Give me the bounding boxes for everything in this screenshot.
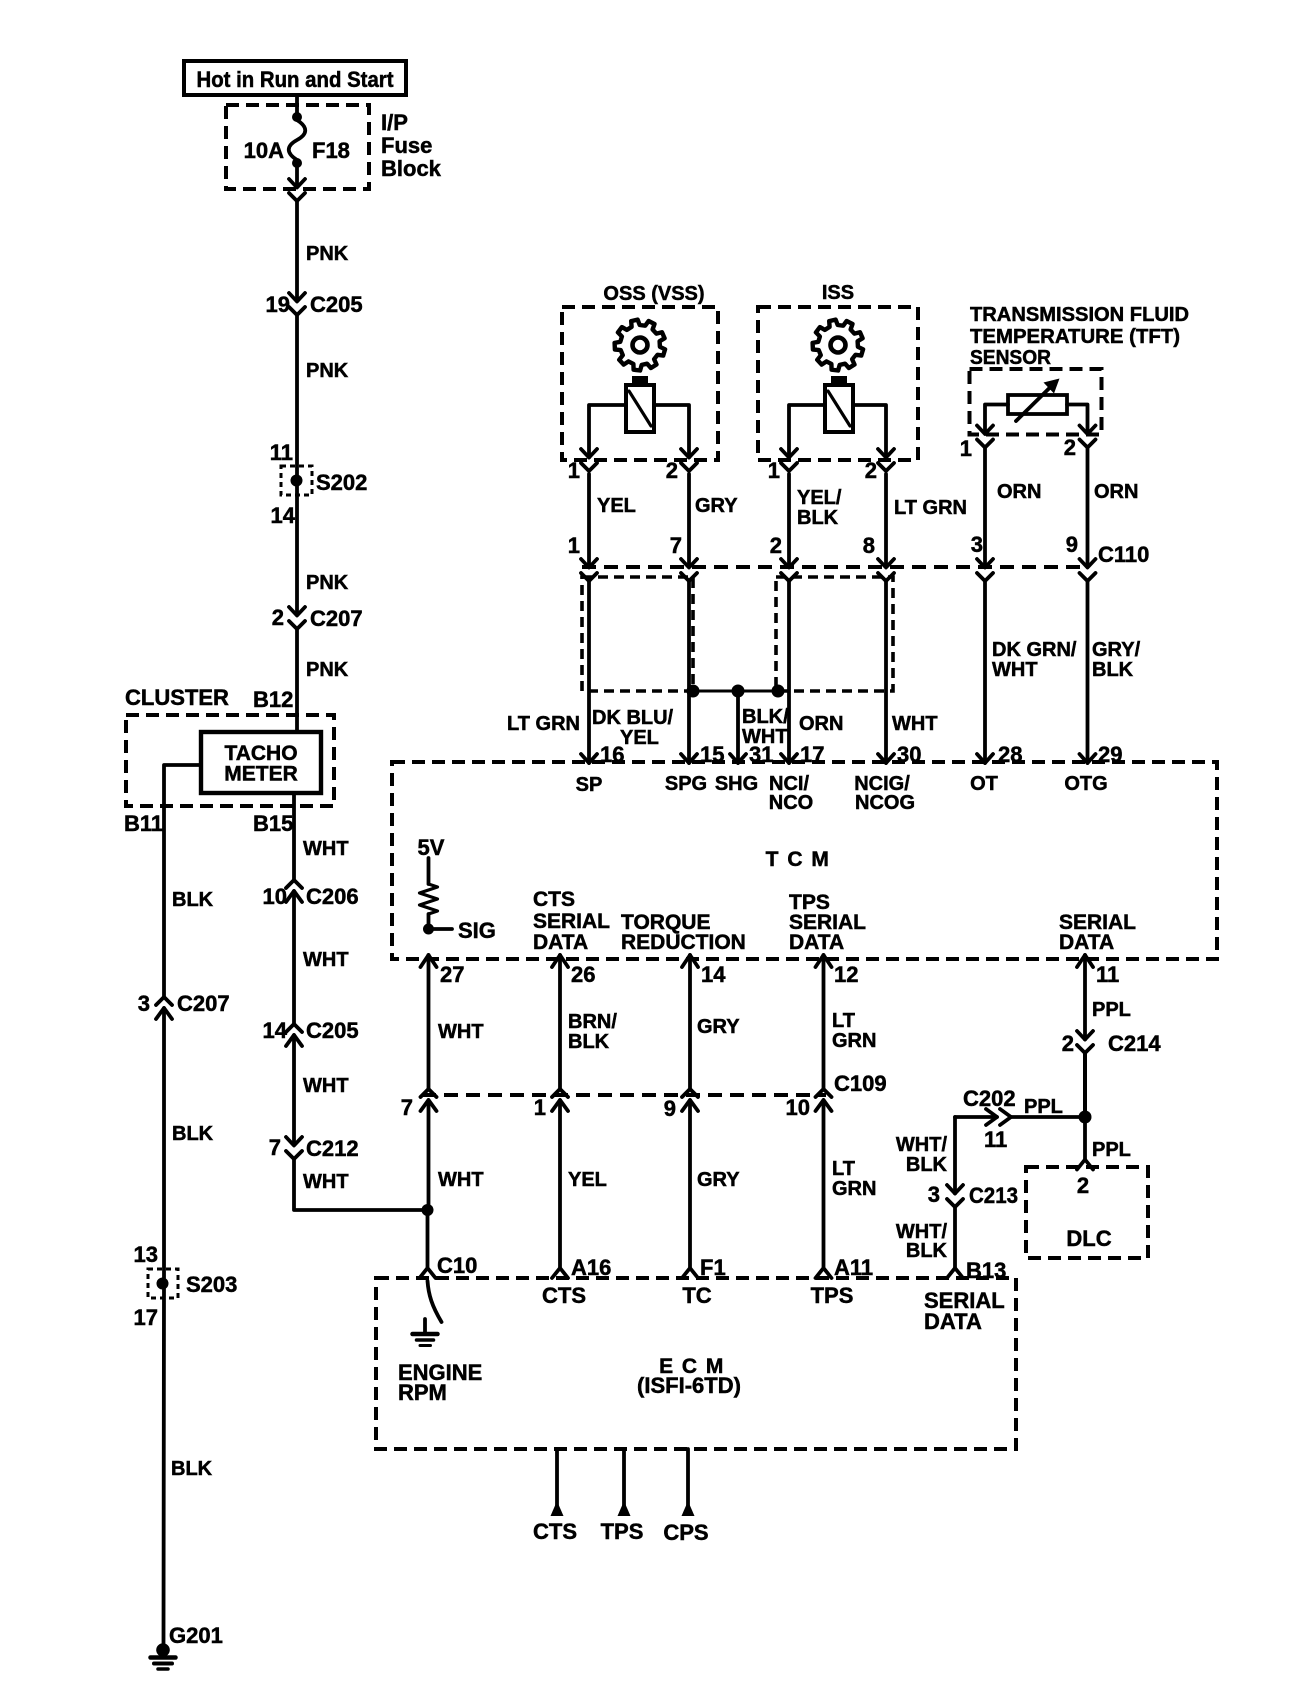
svg-text:GRY: GRY (695, 495, 738, 517)
TCM pin 29 arrow (1080, 754, 1096, 763)
svg-text:DATA: DATA (1059, 931, 1114, 954)
svg-text:TRANSMISSION FLUID: TRANSMISSION FLUID (970, 304, 1189, 326)
ECM pin C10 chevron (420, 1268, 436, 1278)
power feed banner: Hot in Run and Start (184, 61, 406, 95)
shield drain bus (693, 690, 778, 693)
svg-text:2: 2 (666, 458, 678, 483)
DLC dashed box (1026, 1167, 1148, 1258)
svg-text:Hot in Run and Start: Hot in Run and Start (197, 67, 395, 92)
ISS dashed box (758, 307, 918, 460)
svg-text:Fuse: Fuse (381, 133, 432, 158)
svg-text:DATA: DATA (924, 1309, 982, 1334)
connector C214 pin 2 (1077, 1031, 1093, 1040)
svg-text:SP: SP (576, 774, 603, 796)
svg-text:ISS: ISS (822, 282, 854, 304)
wire WHT C206 to C205 (292, 891, 296, 1024)
svg-text:C205: C205 (310, 292, 363, 317)
svg-text:OSS (VSS): OSS (VSS) (603, 283, 704, 305)
TCM pin 31 arrow (730, 754, 746, 763)
svg-text:YEL: YEL (620, 727, 659, 749)
wire TPS input (622, 1449, 626, 1508)
svg-text:10A: 10A (244, 138, 284, 163)
CPS input arrowhead (682, 1501, 695, 1516)
svg-text:WHT: WHT (438, 1021, 484, 1043)
svg-text:14: 14 (263, 1018, 288, 1043)
svg-text:ORN: ORN (799, 713, 843, 735)
svg-text:DLC: DLC (1066, 1226, 1111, 1251)
svg-text:BLK: BLK (1092, 659, 1134, 681)
wire ORN TFT-1 to C110 (983, 448, 987, 565)
svg-text:BLK: BLK (171, 1458, 213, 1480)
svg-text:(ISFI-6TD): (ISFI-6TD) (637, 1373, 741, 1398)
svg-text:OT: OT (970, 773, 998, 795)
svg-text:17: 17 (134, 1305, 158, 1330)
fuse F18 element (289, 120, 306, 160)
wire PNK C205 to S202 (295, 315, 299, 480)
shield junction dot left (687, 685, 700, 698)
TPS input arrowhead (618, 1501, 631, 1516)
svg-text:29: 29 (1098, 742, 1122, 767)
OSS pin 1 connector (581, 449, 597, 458)
svg-text:GRN: GRN (832, 1178, 876, 1200)
svg-text:BLK: BLK (172, 1123, 214, 1145)
svg-text:C207: C207 (177, 991, 230, 1016)
svg-text:2: 2 (1064, 435, 1076, 460)
wire GRY/BLK C110-9 to TCM pin 29 (1086, 581, 1090, 763)
wire LT GRN C110-1 to TCM pin 16 (587, 581, 591, 763)
ISS pickup sensor (831, 376, 847, 385)
wire PPL TCM-11 to C214 (1083, 955, 1087, 1040)
wire DK BLU/YEL C110-7 to TCM pin 15 (687, 581, 691, 763)
svg-text:NCOG: NCOG (855, 792, 915, 814)
svg-text:PNK: PNK (306, 243, 349, 265)
5V feed lead (427, 858, 431, 884)
OSS pickup sensor (632, 376, 648, 385)
svg-text:PNK: PNK (306, 360, 349, 382)
svg-text:28: 28 (998, 742, 1022, 767)
svg-text:C207: C207 (310, 606, 363, 631)
svg-text:OTG: OTG (1064, 773, 1107, 795)
connector C207 pin 3 (156, 997, 172, 1005)
TFT internal wires (985, 405, 1008, 433)
wire PPL C202 to junction (1011, 1115, 1085, 1119)
TCM pin 28 arrow (977, 754, 993, 763)
CTS input arrowhead (551, 1501, 564, 1516)
C109 pin 7 connector (421, 1089, 437, 1097)
wire WHT/BLK corner down to C213 (953, 1117, 957, 1194)
svg-text:BRN/: BRN/ (568, 1011, 617, 1033)
shield box around ISS pair (776, 577, 893, 691)
wire WHT TCM-27 to C109 (427, 955, 431, 1089)
svg-text:WHT/: WHT/ (896, 1134, 948, 1156)
svg-text:BLK: BLK (906, 1240, 948, 1262)
OSS internal wires (589, 405, 626, 458)
junction dot WHT (422, 1204, 434, 1216)
svg-text:LT: LT (832, 1158, 855, 1180)
svg-text:C202: C202 (963, 1086, 1016, 1111)
junction dot PPL (1079, 1111, 1092, 1124)
wire PNK C207 to cluster (295, 629, 299, 732)
wire CPS input (686, 1449, 690, 1508)
wire YEL C109 to ECM A16 (558, 1100, 562, 1267)
svg-text:WHT: WHT (303, 838, 349, 860)
svg-text:SENSOR: SENSOR (970, 347, 1052, 369)
ISS pin 1 connector (781, 449, 797, 458)
svg-text:11: 11 (1096, 962, 1119, 987)
ground G201 (156, 1643, 170, 1657)
svg-text:7: 7 (670, 533, 682, 558)
svg-text:3: 3 (928, 1182, 940, 1207)
C110 pin 1 connector (581, 559, 597, 568)
svg-text:C205: C205 (306, 1018, 359, 1043)
svg-text:REDUCTION: REDUCTION (621, 931, 746, 954)
C109 pin 9 connector (682, 1089, 698, 1097)
connector C205 pin 19 (289, 293, 305, 302)
svg-text:G201: G201 (169, 1623, 223, 1648)
connector C207 pin 2 (289, 607, 305, 616)
wire WHT C110-8 to TCM pin 30 (884, 581, 888, 763)
engine rpm switch (428, 1281, 442, 1322)
svg-text:DK GRN/: DK GRN/ (992, 639, 1077, 661)
svg-text:B15: B15 (253, 811, 293, 836)
I/P fuse block dashed box (226, 105, 369, 189)
svg-text:BLK: BLK (906, 1154, 948, 1176)
svg-text:7: 7 (401, 1095, 413, 1120)
svg-text:14: 14 (701, 962, 726, 987)
svg-text:I/P: I/P (381, 110, 408, 135)
TCM pin 27 arrow (421, 955, 437, 967)
svg-text:WHT: WHT (303, 1171, 349, 1193)
ISS pin 2 connector (878, 449, 894, 458)
connector C213 pin 3 (947, 1185, 963, 1194)
svg-text:WHT: WHT (438, 1169, 484, 1191)
OSS gear icon (615, 320, 666, 371)
svg-text:27: 27 (440, 962, 464, 987)
svg-text:BLK: BLK (797, 507, 839, 529)
OSS pin 2 connector (681, 449, 697, 458)
svg-text:19: 19 (266, 292, 290, 317)
TCM pin 26 arrow (552, 955, 568, 967)
C109 pin 1 connector (552, 1089, 568, 1097)
C110 pin 8 connector (878, 559, 894, 568)
wire LT GRN TCM-12 to C109 (822, 955, 826, 1089)
connector C202 pin 11 (986, 1109, 997, 1125)
wire ORN C110-2 to TCM pin 17 (787, 581, 791, 763)
wire GRY OSS-2 to C110 (687, 474, 691, 565)
wire GRY C109 to ECM F1 (688, 1100, 692, 1267)
svg-text:2: 2 (272, 605, 284, 630)
junction dot top of fuse F18 (292, 112, 302, 122)
SIG node dot (423, 924, 434, 935)
svg-text:DK BLU/: DK BLU/ (592, 707, 674, 729)
shield junction dot right (772, 685, 785, 698)
svg-text:3: 3 (971, 532, 983, 557)
svg-text:C110: C110 (1098, 542, 1149, 567)
splice S203 dot (157, 1278, 169, 1290)
wire LT GRN ISS-2 to C110 (884, 474, 888, 565)
svg-text:LT GRN: LT GRN (507, 713, 580, 735)
svg-text:SERIAL: SERIAL (533, 910, 610, 933)
svg-text:8: 8 (863, 533, 875, 558)
connector C206 pin 10 (286, 880, 302, 888)
svg-text:CLUSTER: CLUSTER (125, 685, 229, 710)
svg-text:GRN: GRN (832, 1030, 876, 1052)
svg-text:CTS: CTS (542, 1283, 586, 1308)
svg-text:30: 30 (897, 742, 921, 767)
svg-text:NCO: NCO (769, 792, 813, 814)
TCM pin 16 arrow (581, 754, 597, 763)
svg-text:S202: S202 (316, 470, 367, 495)
C110 pin 3 connector (977, 559, 993, 568)
ECM pin B13 chevron (947, 1268, 963, 1278)
TCM pin 12 arrow (816, 955, 832, 967)
engine rpm ground (423, 1319, 427, 1332)
svg-text:BLK/: BLK/ (742, 706, 789, 728)
shield box around OSS pair (582, 577, 693, 691)
pull-up resistor (420, 884, 438, 914)
wire WHT C109 to junction (427, 1100, 431, 1210)
svg-text:GRY: GRY (697, 1169, 740, 1191)
ECM dashed box (376, 1278, 1016, 1449)
svg-text:A11: A11 (834, 1255, 873, 1280)
svg-text:SHG: SHG (715, 773, 758, 795)
C110 pin 9 connector (1080, 559, 1096, 568)
svg-text:7: 7 (269, 1135, 281, 1160)
svg-text:CPS: CPS (663, 1520, 708, 1545)
C110 pin 7 connector (681, 559, 697, 568)
TCM pin 15 arrow (681, 754, 697, 763)
TFT pin 2 connector (1080, 426, 1096, 435)
connector C109 dashed line (422, 1093, 826, 1097)
TCM pin 30 arrow (878, 754, 894, 763)
wire PNK S202 to C207 (295, 480, 299, 615)
svg-text:2: 2 (1077, 1173, 1089, 1198)
ISS gear icon (813, 320, 864, 371)
svg-text:BLK: BLK (172, 889, 214, 911)
splice S203 dashed box (148, 1269, 178, 1298)
svg-text:3: 3 (138, 991, 150, 1016)
svg-text:10: 10 (263, 884, 287, 909)
wire CTS input (555, 1449, 559, 1508)
svg-text:PPL: PPL (1092, 999, 1131, 1021)
svg-text:WHT: WHT (303, 1075, 349, 1097)
wire WHT/BLK ECM branch horizontal (955, 1115, 997, 1119)
svg-text:T C M: T C M (766, 848, 831, 871)
TCM pin 14 arrow (682, 955, 698, 967)
resistor lead to SIG node (427, 914, 431, 929)
svg-text:10: 10 (786, 1095, 810, 1120)
splice S202 dashed box (281, 466, 312, 495)
svg-text:17: 17 (800, 742, 824, 767)
svg-text:C213: C213 (969, 1183, 1018, 1208)
wire B11 from tachometer (164, 765, 201, 997)
svg-text:YEL/: YEL/ (797, 487, 842, 509)
SIG tick (434, 927, 452, 931)
svg-text:S203: S203 (186, 1272, 237, 1297)
svg-text:C214: C214 (1108, 1031, 1161, 1056)
cluster dashed box (126, 715, 334, 806)
ISS internal wires (789, 405, 825, 458)
svg-text:TPS: TPS (601, 1519, 644, 1544)
svg-text:YEL: YEL (568, 1169, 607, 1191)
ECM pin F1 chevron (682, 1268, 698, 1278)
svg-text:1: 1 (960, 436, 972, 461)
svg-text:14: 14 (271, 503, 296, 528)
DLC pin 2 chevron (1077, 1160, 1093, 1170)
wire WHT tachometer B15 to C206 (292, 793, 296, 880)
connector at fuse block bottom edge (289, 179, 305, 188)
svg-text:B11: B11 (124, 811, 163, 836)
svg-text:2: 2 (865, 458, 877, 483)
svg-text:WHT: WHT (892, 713, 938, 735)
svg-text:F1: F1 (700, 1255, 726, 1280)
wire WHT C205 to C212 (292, 1035, 296, 1145)
svg-text:CTS: CTS (533, 1519, 577, 1544)
wire LT GRN C109 to ECM A11 (822, 1100, 826, 1267)
svg-text:5V: 5V (418, 835, 445, 860)
svg-text:DATA: DATA (533, 931, 588, 954)
svg-text:26: 26 (571, 962, 595, 987)
svg-text:BLK: BLK (568, 1031, 610, 1053)
svg-text:TPS: TPS (811, 1283, 854, 1308)
svg-text:LT GRN: LT GRN (894, 497, 967, 519)
svg-text:15: 15 (700, 742, 724, 767)
TFT dashed box (970, 369, 1102, 435)
wire GRY TCM-14 to C109 (688, 955, 692, 1089)
wire PNK fuse to C205 (295, 201, 299, 301)
svg-text:1: 1 (568, 533, 580, 558)
connector C110 dashed line (582, 565, 1088, 569)
svg-text:PPL: PPL (1024, 1096, 1063, 1118)
svg-text:GRY/: GRY/ (1092, 639, 1141, 661)
TCM pin 11 arrow (1077, 955, 1093, 967)
svg-text:9: 9 (1066, 532, 1078, 557)
wire PPL junction to DLC (1083, 1117, 1087, 1160)
svg-text:PPL: PPL (1092, 1139, 1131, 1161)
svg-text:PNK: PNK (306, 572, 349, 594)
svg-text:A16: A16 (571, 1255, 611, 1280)
svg-text:METER: METER (224, 763, 298, 786)
wire PPL C214 to junction (1083, 1053, 1087, 1117)
TCM dashed box (392, 762, 1217, 959)
svg-text:SIG: SIG (458, 918, 496, 943)
wire BLK/WHT shield to TCM pin 31 (736, 691, 740, 763)
wire BRN/BLK TCM-26 to C109 (558, 955, 562, 1089)
wire WHT/BLK C213 to ECM B13 (953, 1207, 957, 1267)
wire WHT junction to ECM C10 (426, 1210, 430, 1267)
svg-text:11: 11 (984, 1127, 1007, 1152)
wire YEL OSS-1 to C110 (587, 474, 591, 565)
svg-text:9: 9 (664, 1096, 676, 1121)
svg-text:2: 2 (770, 533, 782, 558)
svg-text:1: 1 (534, 1095, 546, 1120)
wire BLK S203 to G201 (162, 1283, 166, 1644)
svg-text:C10: C10 (437, 1253, 477, 1278)
svg-text:ORN: ORN (997, 481, 1041, 503)
svg-text:12: 12 (834, 962, 858, 987)
svg-text:PNK: PNK (306, 659, 349, 681)
svg-text:1: 1 (568, 458, 580, 483)
svg-text:LT: LT (832, 1010, 855, 1032)
TFT pin 1 connector (977, 426, 993, 435)
svg-text:TEMPERATURE (TFT): TEMPERATURE (TFT) (970, 326, 1180, 348)
OSS dashed box (562, 307, 718, 460)
svg-text:B12: B12 (253, 687, 293, 712)
C110 pin 2 connector (781, 559, 797, 568)
svg-text:2: 2 (1062, 1031, 1074, 1056)
svg-text:Block: Block (381, 156, 442, 181)
svg-text:CTS: CTS (533, 888, 575, 911)
junction dot bottom of fuse F18 (292, 158, 302, 168)
svg-text:1: 1 (768, 458, 780, 483)
svg-text:YEL: YEL (597, 495, 636, 517)
wire WHT C212 to junction (294, 1159, 428, 1210)
svg-text:WHT: WHT (303, 949, 349, 971)
svg-text:ORN: ORN (1094, 481, 1138, 503)
wire fuse to block edge (295, 165, 299, 187)
svg-text:GRY: GRY (697, 1016, 740, 1038)
svg-text:F18: F18 (312, 138, 350, 163)
wire DK GRN/WHT C110-3 to TCM pin 28 (983, 581, 987, 763)
svg-text:SPG: SPG (665, 773, 707, 795)
svg-text:C109: C109 (834, 1071, 887, 1096)
svg-text:16: 16 (600, 742, 624, 767)
svg-text:13: 13 (134, 1242, 158, 1267)
shield junction dot middle (732, 685, 745, 698)
ECM pin A11 chevron (816, 1268, 832, 1278)
svg-text:C206: C206 (306, 884, 359, 909)
connector C205 pin 14 (286, 1024, 302, 1032)
wire ORN TFT-2 to C110 (1086, 448, 1090, 565)
ECM pin A16 chevron (552, 1268, 568, 1278)
svg-text:31: 31 (749, 742, 773, 767)
svg-text:DATA: DATA (789, 931, 844, 954)
svg-text:11: 11 (270, 440, 293, 465)
wire from banner to fuse (295, 95, 299, 116)
svg-text:WHT: WHT (992, 659, 1038, 681)
TCM pin 17 arrow (781, 754, 797, 763)
TFT thermistor (1008, 395, 1067, 414)
wire BLK C207 to S203 (162, 1008, 166, 1283)
tachometer box (201, 732, 321, 793)
svg-text:RPM: RPM (398, 1380, 447, 1405)
svg-text:TC: TC (682, 1283, 711, 1308)
splice S202 dot (291, 475, 303, 487)
connector C212 pin 7 (286, 1137, 302, 1146)
svg-text:C212: C212 (306, 1136, 359, 1161)
wire YEL/BLK ISS-1 to C110 (787, 474, 791, 565)
C109 pin 10 connector (816, 1089, 832, 1097)
